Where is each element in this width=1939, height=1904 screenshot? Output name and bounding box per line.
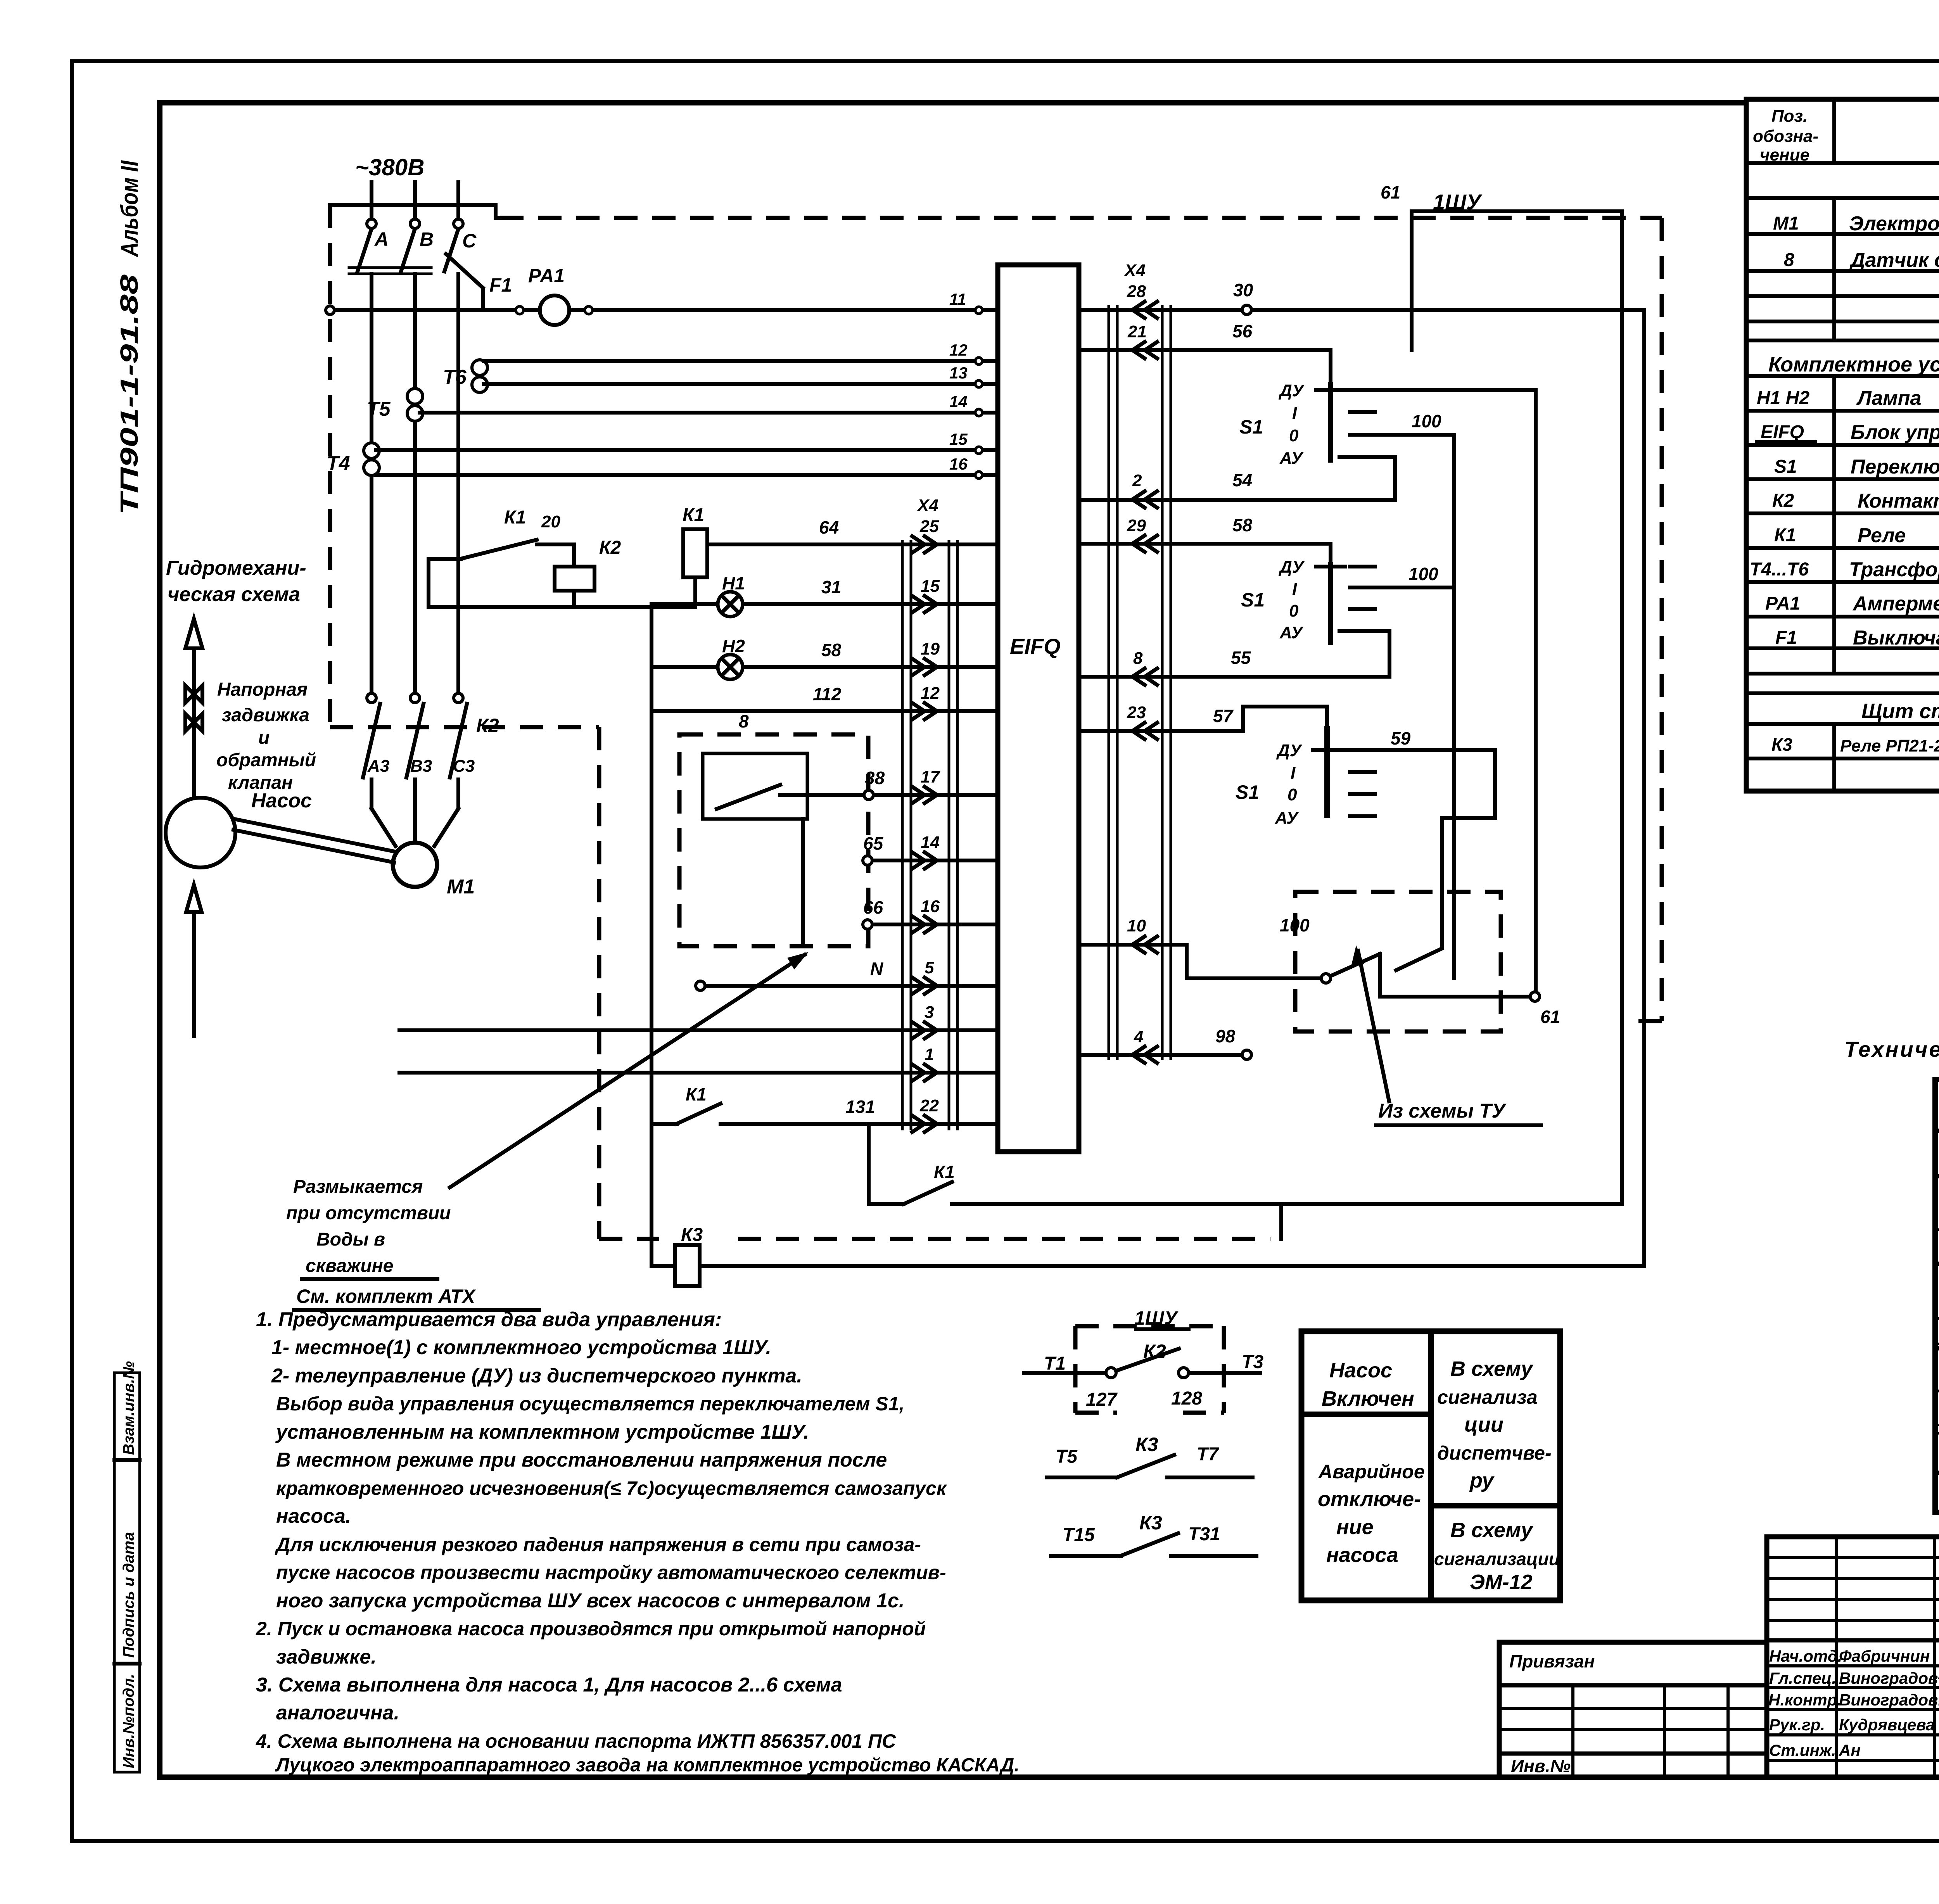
svg-text:К3: К3: [1139, 1512, 1162, 1534]
svg-text:Подпись и дата: Подпись и дата: [120, 1532, 137, 1658]
svg-text:См. комплект АТХ: См. комплект АТХ: [296, 1285, 476, 1307]
svg-text:Н.контр.: Н.контр.: [1768, 1691, 1842, 1709]
svg-text:А3: А3: [367, 757, 389, 776]
svg-text:Ан: Ан: [1839, 1741, 1861, 1759]
svg-text:Контактор: Контактор: [1858, 490, 1939, 512]
svg-text:Привязан: Привязан: [1509, 1651, 1595, 1671]
svg-text:10: 10: [1127, 916, 1146, 935]
svg-text:Гл.спец.: Гл.спец.: [1769, 1669, 1836, 1687]
svg-text:ДУ: ДУ: [1278, 558, 1305, 577]
svg-text:ции: ции: [1464, 1413, 1504, 1436]
svg-text:N: N: [870, 959, 883, 979]
svg-text:Т1: Т1: [1044, 1353, 1066, 1374]
svg-text:ние: ние: [1336, 1515, 1374, 1539]
svg-text:S1: S1: [1236, 781, 1259, 803]
svg-text:Т7: Т7: [1197, 1444, 1219, 1465]
svg-text:насоса.: насоса.: [276, 1505, 351, 1527]
svg-text:чение: чение: [1760, 145, 1809, 164]
svg-text:Т5: Т5: [367, 398, 391, 420]
svg-text:задвижка: задвижка: [222, 705, 309, 726]
svg-text:Взам.инв.№: Взам.инв.№: [120, 1361, 137, 1455]
svg-text:S1: S1: [1241, 589, 1265, 611]
svg-text:Т4: Т4: [327, 452, 350, 475]
svg-text:I: I: [1292, 580, 1297, 599]
svg-text:12: 12: [949, 341, 968, 359]
svg-text:112: 112: [813, 684, 842, 704]
svg-text:М1: М1: [1773, 213, 1799, 234]
svg-text:64: 64: [819, 517, 839, 537]
svg-text:Ст.инж.: Ст.инж.: [1769, 1741, 1836, 1759]
svg-text:S1: S1: [1774, 456, 1797, 477]
svg-text:К1: К1: [1774, 525, 1796, 546]
svg-text:21: 21: [1127, 322, 1147, 341]
svg-text:обозна-: обозна-: [1753, 127, 1818, 146]
svg-text:57: 57: [1213, 706, 1234, 726]
svg-text:В схему: В схему: [1450, 1357, 1534, 1380]
svg-text:ДУ: ДУ: [1278, 381, 1305, 400]
svg-text:0: 0: [1287, 785, 1297, 804]
svg-text:I: I: [1291, 764, 1296, 783]
svg-text:Кудрявцева: Кудрявцева: [1839, 1716, 1935, 1734]
svg-text:Н1 Н2: Н1 Н2: [1757, 388, 1809, 408]
svg-text:65: 65: [863, 833, 884, 854]
svg-text:Виноградов: Виноградов: [1839, 1669, 1938, 1687]
svg-text:диспетчве-: диспетчве-: [1437, 1442, 1552, 1464]
svg-text:Н2: Н2: [722, 636, 745, 656]
svg-text:К2: К2: [1772, 491, 1794, 511]
svg-text:Выбор вида управления осуще: Выбор вида управления осуществляется пер…: [276, 1393, 904, 1415]
svg-text:Т3: Т3: [1242, 1352, 1263, 1372]
svg-text:ТП901-1-91.88: ТП901-1-91.88: [115, 274, 143, 515]
svg-text:30: 30: [1233, 280, 1253, 300]
svg-text:К3: К3: [681, 1225, 703, 1245]
svg-text:Х4: Х4: [1123, 261, 1146, 280]
svg-text:К2: К2: [599, 537, 621, 558]
svg-text:Напорная: Напорная: [217, 679, 308, 700]
svg-text:14: 14: [921, 833, 940, 852]
svg-text:17: 17: [921, 767, 940, 786]
svg-text:К1: К1: [934, 1162, 955, 1182]
svg-text:Аварийное: Аварийное: [1318, 1461, 1425, 1482]
svg-text:Блок управления: Блок управления: [1851, 421, 1939, 444]
svg-text:13: 13: [949, 364, 968, 382]
svg-text:АУ: АУ: [1279, 623, 1304, 642]
svg-text:ЕIFQ: ЕIFQ: [1010, 634, 1061, 658]
svg-text:Из схемы ТУ: Из схемы ТУ: [1378, 1100, 1507, 1122]
svg-text:16: 16: [949, 455, 968, 473]
svg-text:М1: М1: [447, 876, 475, 898]
svg-text:0: 0: [1289, 426, 1299, 445]
svg-text:Гидромехани-: Гидромехани-: [166, 557, 306, 579]
svg-text:клапан: клапан: [228, 772, 293, 793]
svg-text:29: 29: [1127, 516, 1146, 535]
svg-text:Н1: Н1: [722, 573, 745, 593]
svg-text:Насос: Насос: [1329, 1359, 1392, 1382]
svg-text:Виноградов.: Виноградов.: [1839, 1691, 1939, 1709]
svg-text:38: 38: [865, 768, 885, 788]
svg-text:Фабричнин: Фабричнин: [1839, 1647, 1930, 1665]
svg-text:131: 131: [845, 1097, 875, 1117]
svg-text:Т31: Т31: [1188, 1524, 1220, 1545]
svg-text:К3: К3: [1771, 734, 1792, 755]
svg-text:F1: F1: [489, 274, 512, 296]
svg-text:пуске насосов произвести на: пуске насосов произвести настройку автом…: [276, 1562, 946, 1583]
svg-text:задвижке.: задвижке.: [276, 1646, 377, 1668]
svg-text:3: 3: [925, 1003, 934, 1022]
svg-text:Включен: Включен: [1322, 1387, 1414, 1410]
svg-text:сигнализации: сигнализации: [1434, 1549, 1560, 1569]
svg-text:Комплектное устройство 1ШУ (: Комплектное устройство 1ШУ (2ШУ...6ШУ) (…: [1768, 353, 1939, 376]
svg-text:S1: S1: [1239, 416, 1263, 438]
svg-text:Переклю атель: Переклю атель: [1851, 456, 1939, 478]
svg-text:ЭМ-12: ЭМ-12: [1470, 1571, 1533, 1594]
svg-text:8: 8: [739, 711, 749, 731]
svg-text:59: 59: [1391, 728, 1411, 748]
svg-text:В3: В3: [410, 757, 432, 776]
svg-text:1- местное(1) с комплектного: 1- местное(1) с комплектного устройства …: [271, 1336, 771, 1359]
svg-text:5: 5: [925, 958, 934, 977]
svg-text:В схему: В схему: [1450, 1519, 1534, 1542]
svg-text:2. Пуск и остановка насоса: 2. Пуск и остановка насоса производятся …: [256, 1618, 926, 1640]
svg-text:25: 25: [919, 517, 939, 536]
svg-text:98: 98: [1215, 1026, 1236, 1046]
svg-text:54: 54: [1232, 470, 1252, 490]
svg-text:28: 28: [1127, 282, 1146, 301]
svg-text:кратковременного исчезновения: кратковременного исчезновения(≤ 7с)осуще…: [276, 1477, 947, 1499]
svg-text:100: 100: [1412, 411, 1441, 431]
svg-text:Реле РП21-200 УХЛ4 с розеткой: Реле РП21-200 УХЛ4 с розеткой типаЭ И~12…: [1840, 736, 1939, 755]
svg-text:Поз.: Поз.: [1771, 107, 1808, 126]
svg-text:Лампа: Лампа: [1856, 387, 1921, 409]
svg-text:РА1: РА1: [528, 265, 565, 287]
svg-text:К2: К2: [476, 715, 499, 736]
svg-text:насоса: насоса: [1326, 1543, 1398, 1567]
svg-text:61: 61: [1381, 182, 1400, 202]
svg-text:~380В: ~380В: [355, 154, 424, 180]
svg-text:20: 20: [541, 512, 560, 531]
svg-text:66: 66: [863, 897, 883, 917]
svg-text:Электродвигатель: Электродвигатель: [1849, 213, 1939, 235]
svg-text:2- телеуправление (ДУ) из дис: 2- телеуправление (ДУ) из диспетчерского…: [271, 1365, 802, 1387]
svg-text:установленным на комплектном: установленным на комплектном устройстве …: [275, 1421, 809, 1443]
svg-text:Инв.№подл.: Инв.№подл.: [120, 1674, 137, 1768]
svg-text:ДУ: ДУ: [1276, 741, 1303, 760]
svg-text:Т4...Т6: Т4...Т6: [1750, 559, 1809, 580]
svg-text:19: 19: [921, 639, 940, 658]
svg-text:56: 56: [1232, 321, 1253, 341]
svg-text:ного запуска устройства ШУ: ного запуска устройства ШУ всех насосов …: [276, 1590, 904, 1612]
svg-text:В: В: [420, 228, 434, 250]
svg-text:и: и: [258, 727, 270, 748]
svg-text:14: 14: [949, 392, 968, 411]
svg-text:Реле: Реле: [1858, 524, 1906, 547]
svg-text:Амперметр: Амперметр: [1852, 593, 1939, 615]
svg-text:Выключатель: Выключатель: [1853, 627, 1939, 649]
svg-text:А: А: [374, 228, 389, 250]
svg-text:58: 58: [1232, 515, 1253, 535]
svg-text:С: С: [462, 230, 477, 252]
svg-text:Т15: Т15: [1063, 1525, 1095, 1545]
svg-text:58: 58: [821, 640, 842, 660]
svg-text:8: 8: [1784, 250, 1794, 270]
svg-text:15: 15: [949, 430, 968, 448]
svg-text:55: 55: [1231, 648, 1251, 668]
svg-text:Нач.отд.: Нач.отд.: [1769, 1647, 1842, 1665]
svg-text:31: 31: [821, 577, 841, 597]
svg-text:АУ: АУ: [1279, 449, 1304, 468]
svg-text:Альбом II: Альбом II: [116, 160, 143, 257]
svg-text:12: 12: [921, 684, 940, 703]
svg-text:8: 8: [1133, 649, 1143, 668]
svg-text:Размыкается: Размыкается: [293, 1177, 423, 1197]
svg-text:3. Схема выполнена для насо: 3. Схема выполнена для насоса 1, Для нас…: [256, 1674, 842, 1696]
svg-text:Для исключения резкого паде: Для исключения резкого падения напряжени…: [275, 1534, 921, 1555]
svg-text:обратный: обратный: [216, 750, 316, 771]
svg-text:Х4: Х4: [916, 496, 938, 515]
svg-text:В местном режиме при восст: В местном режиме при восстановлении напр…: [276, 1449, 887, 1471]
svg-text:15: 15: [921, 577, 940, 596]
svg-text:К1: К1: [686, 1084, 707, 1104]
svg-text:1: 1: [925, 1045, 934, 1064]
svg-text:при отсутствии: при отсутствии: [286, 1203, 451, 1223]
svg-text:128: 128: [1171, 1388, 1202, 1409]
svg-text:Т6: Т6: [443, 366, 467, 389]
svg-text:4. Схема выполнена на основ: 4. Схема выполнена на основании паспорта…: [256, 1730, 896, 1752]
svg-text:0: 0: [1289, 601, 1299, 620]
svg-text:ЕIFQ: ЕIFQ: [1761, 422, 1804, 442]
svg-text:I: I: [1292, 404, 1297, 423]
svg-text:100: 100: [1408, 564, 1438, 584]
svg-text:Технические данные комплектно: Технические данные комплектного устройст…: [1844, 1037, 1939, 1061]
svg-text:Луцкого электроаппаратного зав: Луцкого электроаппаратного завода на ком…: [275, 1755, 1020, 1776]
svg-text:ру: ру: [1469, 1469, 1495, 1492]
svg-text:К1: К1: [504, 507, 526, 528]
svg-text:2: 2: [1132, 471, 1142, 490]
svg-text:4: 4: [1134, 1027, 1143, 1046]
svg-text:Трансформатор тока: Трансформатор тока: [1849, 558, 1939, 581]
svg-text:Инв.№: Инв.№: [1511, 1756, 1571, 1776]
svg-text:Воды в: Воды в: [316, 1229, 385, 1250]
svg-text:23: 23: [1127, 703, 1146, 722]
svg-text:С3: С3: [453, 757, 475, 776]
svg-text:ческая схема: ческая схема: [168, 583, 300, 606]
svg-text:отключе-: отключе-: [1318, 1488, 1421, 1511]
svg-text:аналогична.: аналогична.: [276, 1702, 399, 1724]
svg-text:РА1: РА1: [1765, 593, 1800, 614]
svg-text:16: 16: [921, 897, 940, 916]
svg-text:АУ: АУ: [1275, 809, 1299, 828]
svg-text:Т5: Т5: [1056, 1446, 1078, 1467]
svg-text:Датчик сухого хода: Датчик сухого хода: [1849, 249, 1939, 271]
svg-text:11: 11: [949, 290, 966, 308]
svg-text:Щит станций управления 1Щ: Щит станций управления 1Щ: [1861, 700, 1939, 723]
svg-text:22: 22: [919, 1096, 939, 1115]
svg-text:К1: К1: [683, 505, 704, 525]
svg-text:61: 61: [1540, 1007, 1560, 1027]
svg-text:К3: К3: [1135, 1434, 1158, 1455]
svg-text:F1: F1: [1775, 627, 1797, 648]
svg-text:сигнализа: сигнализа: [1437, 1386, 1538, 1408]
svg-text:127: 127: [1086, 1389, 1118, 1410]
svg-text:Рук.гр.: Рук.гр.: [1769, 1716, 1825, 1734]
svg-text:скважине: скважине: [306, 1256, 393, 1276]
